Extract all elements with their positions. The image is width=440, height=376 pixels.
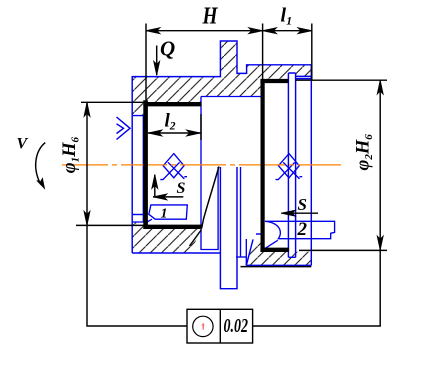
bar curve [202,167,219,229]
H left / right [146,28,160,34]
bar lines to part face [296,76,312,78]
svg-text:φ2H6: φ2H6 [353,134,375,171]
cutter 2 [265,221,335,238]
part 2 bottom edge [246,264,311,266]
l2 right ext overlay [200,114,202,140]
svg-text:2: 2 [297,219,308,240]
chevron mark [117,117,131,140]
Q force line [156,46,158,76]
S left small [153,194,167,200]
jaw recess outline [132,116,143,222]
jaw tick [133,214,143,216]
l2 dimension line [148,132,201,134]
part2 bottom black line [241,266,312,268]
H l1 extension lines [145,24,147,101]
part 2 left face [240,167,242,257]
step right of stem [236,256,246,258]
red datum mark [201,323,205,330]
phi1 ext lines [81,101,146,103]
l2 left / right [148,130,162,136]
svg-text:l2: l2 [165,110,176,132]
svg-text:S: S [298,195,307,214]
counterbore step [201,97,261,250]
S feed line right [281,212,318,214]
H dimension line [146,30,263,32]
phi2 dim line + leader [253,80,381,326]
phi2 top / bottom [377,80,383,94]
part 2 right face [310,65,312,266]
boring bar [288,73,295,257]
svg-text:1: 1 [161,207,168,222]
svg-text:l1: l1 [281,5,293,28]
cutter 1 [149,205,188,219]
S feed lines left [153,175,183,197]
stem [220,167,237,289]
V arc arrowhead [37,178,45,188]
thin black details [36,24,387,327]
svg-text:0.02: 0.02 [224,315,249,337]
part 2 bottom-left slant edge [246,240,253,266]
cutter 1 tail [145,219,152,224]
svg-text:V: V [17,136,29,153]
phi2 ext lines [296,79,387,81]
phi1 dim line + leader [87,103,187,327]
centerline [62,164,341,166]
S right arrow [281,210,295,216]
svg-text:H: H [202,4,219,30]
phi1 top / bottom [84,103,90,117]
svg-text:S: S [177,180,186,197]
arrowheads (slender filled) [37,28,383,250]
insert symbol left [160,154,187,180]
S up [152,175,158,189]
l1 left / right [263,28,277,34]
machined surfaces: bore 2 [261,79,265,252]
machined surfaces: bore 1 [143,100,148,229]
insert symbol right [276,154,303,180]
svg-text:φ1H6: φ1H6 [60,136,82,173]
V rotation arc [36,143,46,185]
hatched fixture body lower-left section [132,222,201,253]
Q down [154,61,160,75]
chuck bottom edge [132,252,220,254]
cutter 2 tail [264,240,278,249]
chuck body outline [132,41,311,253]
notch diag [190,230,202,247]
l1 dimension line [263,30,312,32]
hatched fixture body upper section [132,41,311,116]
small tick part2 inner [256,233,261,235]
runout tolerance frame [187,309,253,343]
part 2 left lower vertical [245,239,247,265]
svg-text:Q: Q [160,37,175,61]
hatched part 2 bottom flange section [246,240,311,266]
